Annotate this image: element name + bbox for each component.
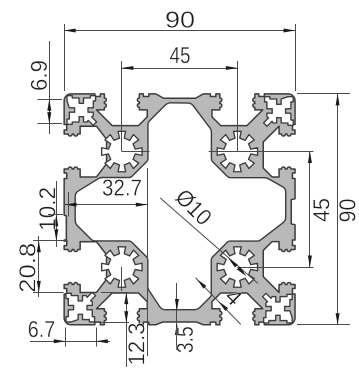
profile body (90x90 extrusion cross-section) [64, 94, 295, 325]
spline core hole bottom-left [102, 247, 142, 287]
dimension 90 right [297, 93, 350, 95]
dimension dia10 leader [160, 198, 258, 284]
short reference line left groove [68, 192, 70, 217]
dimension 6.7 [65, 328, 67, 347]
dimension 20.8 [33, 292, 64, 294]
central cavity [75, 103, 286, 310]
dimension 6.9 [38, 99, 63, 101]
spline core hole top-left [102, 131, 142, 171]
corner cavity top-left [67, 96, 97, 126]
centreline stub bottom-left hole [121, 267, 123, 291]
corner cavity top-right [264, 97, 294, 127]
dimension 12.3 [101, 292, 129, 294]
centreline stub top-left hole [122, 151, 150, 153]
dimension 3.5 [176, 283, 178, 350]
dimension 90 top [64, 24, 66, 91]
spline core hole top-right [217, 131, 257, 171]
dimension 32.7 [147, 168, 149, 356]
corner cavity bottom-left [66, 292, 96, 322]
dimension 10.2 [48, 214, 63, 216]
dimension 4 (tooth) [195, 278, 240, 325]
dimension 45 top [121, 61, 123, 152]
corner cavity bottom-right [263, 293, 293, 323]
spline core hole bottom-right [217, 247, 257, 287]
dimension 45 right [209, 151, 314, 153]
